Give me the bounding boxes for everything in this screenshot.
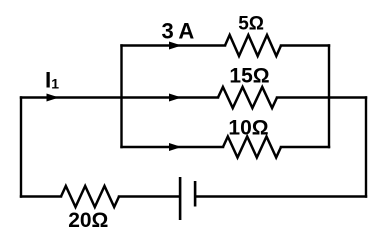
resistor R1 5-ohm zigzag [225,35,281,56]
wire: middle vertical bus joining three branches [120,46,122,148]
arrow: current arrow on middle branch [169,94,182,102]
battery negative plate (short) [194,181,197,207]
svg-text:A: A [178,19,194,44]
wire: bottom rail left (to 20-ohm resistor) [21,195,61,197]
wire: top branch right segment from R1 to inner right bus [281,44,329,46]
arrow: current arrow on bottom branch [169,143,182,151]
svg-text:10Ω: 10Ω [228,116,268,139]
resistor R2 15-ohm zigzag [218,87,277,108]
arrow: I1 current arrow on left wire [47,94,60,102]
wire: middle branch right segment from R2 to outer right bus [277,96,366,98]
wire: bottom rail middle (20-ohm to battery) [119,195,179,197]
svg-text:3: 3 [162,19,174,44]
svg-text:20Ω: 20Ω [68,209,108,232]
wire: outer right vertical bus down to bottom rail [365,98,367,197]
resistor R4 20-ohm zigzag [61,186,119,207]
wire: left vertical from node A to bottom rail [20,98,22,197]
wire: inner right vertical bus (joins 5-ohm and 10-ohm branches) [328,46,330,148]
wire: bottom rail right (battery to outer bus) [196,195,366,197]
wire: left horizontal input (I1) to 15-ohm branch [21,96,218,98]
arrow: 3A current arrow on top branch [169,42,182,50]
wire: top branch left segment to R1 [122,44,226,46]
battery positive plate (long) [179,177,182,220]
svg-text:5Ω: 5Ω [238,14,264,35]
svg-text:15Ω: 15Ω [229,65,269,88]
resistor R3 10-ohm zigzag [223,137,281,158]
wire: bottom branch left segment to R3 [122,146,224,148]
wire: bottom branch right segment from R3 to inner right bus [281,146,329,148]
